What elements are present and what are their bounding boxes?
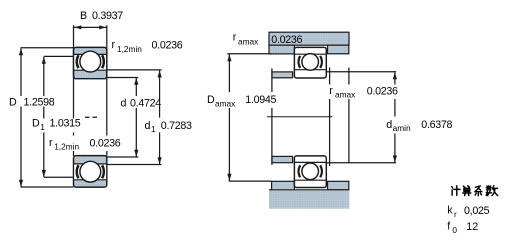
svg-text:r: r bbox=[329, 85, 333, 97]
char suan bbox=[463, 186, 471, 196]
char shu bbox=[486, 186, 498, 196]
extension line ra bbox=[348, 68, 350, 163]
extension line Da bottom bbox=[229, 180, 272, 182]
arrow B right bbox=[99, 25, 106, 29]
ball lower-left bbox=[80, 161, 101, 182]
arrow Damax bottom bbox=[227, 174, 231, 181]
svg-text:r: r bbox=[454, 209, 457, 219]
ball upper-right bbox=[302, 54, 319, 71]
shaft shoulder strip lower bbox=[272, 156, 293, 162]
groove arcs upper-right bbox=[299, 56, 322, 68]
dimension line damin bbox=[394, 73, 396, 163]
svg-text:D: D bbox=[32, 118, 40, 130]
arrow Damax top bbox=[227, 54, 231, 61]
svg-text:1,2min: 1,2min bbox=[54, 142, 79, 152]
svg-text:D: D bbox=[207, 94, 215, 106]
arrow d1 top bbox=[158, 71, 162, 78]
svg-text:D: D bbox=[9, 96, 17, 108]
svg-text:0.7283: 0.7283 bbox=[161, 120, 192, 132]
svg-text:0.0236: 0.0236 bbox=[152, 40, 183, 52]
dimension line D bbox=[20, 48, 22, 187]
svg-text:0.0236: 0.0236 bbox=[367, 86, 398, 98]
label D1 bbox=[32, 118, 81, 132]
label f0 bbox=[447, 221, 478, 236]
svg-text:0: 0 bbox=[452, 225, 457, 235]
extension line right face bbox=[106, 25, 108, 156]
svg-text:1: 1 bbox=[151, 124, 156, 134]
svg-text:amax: amax bbox=[335, 90, 356, 100]
label r1,2min bottom bbox=[49, 137, 121, 152]
bearing lower section bbox=[74, 156, 107, 188]
svg-text:1: 1 bbox=[40, 122, 45, 132]
dimension line B bbox=[74, 26, 107, 28]
extension line d1 bottom bbox=[107, 164, 162, 166]
arrow d1 bottom bbox=[158, 157, 162, 164]
ball lower-right bbox=[302, 163, 319, 180]
extension line d top bbox=[107, 77, 139, 79]
svg-text:amax: amax bbox=[238, 36, 259, 46]
char ji bbox=[452, 186, 460, 196]
extension line da top bbox=[326, 71, 396, 73]
svg-text:0,025: 0,025 bbox=[464, 205, 490, 217]
raceway groove arcs upper-left bbox=[77, 55, 104, 68]
label Damax bbox=[207, 94, 277, 108]
shaft shoulder face line left bbox=[271, 68, 273, 164]
arrow D bottom bbox=[19, 180, 23, 187]
white masks under dimension labels bbox=[8, 85, 459, 152]
svg-text:d: d bbox=[386, 119, 392, 131]
arrow D top bbox=[19, 48, 23, 55]
svg-text:f: f bbox=[447, 221, 450, 233]
extension line D1 bottom bbox=[44, 176, 74, 178]
label ramax middle bbox=[329, 85, 398, 100]
svg-text:0.6378: 0.6378 bbox=[421, 119, 452, 131]
label damin bbox=[386, 119, 452, 133]
dimension line d1 over labels bbox=[159, 71, 161, 165]
ball upper-left bbox=[80, 51, 101, 72]
housing right strip (top) bbox=[328, 45, 349, 54]
extension line D1 top bbox=[44, 55, 74, 57]
arrow d top bbox=[134, 78, 138, 85]
label D bbox=[9, 96, 55, 108]
bearing upper section outer ring bbox=[74, 47, 107, 78]
extension line Da top bbox=[227, 53, 271, 55]
svg-text:r: r bbox=[112, 39, 116, 51]
bearing upper section right bbox=[294, 47, 326, 78]
groove arcs lower-right bbox=[299, 165, 322, 177]
extension line d bottom bbox=[107, 156, 139, 158]
svg-text:k: k bbox=[447, 204, 453, 216]
svg-text:1,2min: 1,2min bbox=[117, 44, 142, 54]
svg-text:1.2598: 1.2598 bbox=[24, 96, 55, 108]
extension line da bottom bbox=[326, 162, 396, 164]
Chinese title 计算系数 drawn as strokes bbox=[452, 186, 498, 196]
svg-text:1.0945: 1.0945 bbox=[245, 94, 276, 106]
label d1 bbox=[145, 120, 193, 134]
housing bottom band bbox=[269, 190, 349, 209]
label r1,2min top bbox=[112, 39, 183, 54]
svg-text:d: d bbox=[121, 98, 127, 110]
char xi bbox=[475, 186, 482, 196]
shaft shoulder face line right bbox=[329, 67, 331, 165]
shaft shoulder strip upper bbox=[272, 72, 293, 78]
centre line dashes bbox=[85, 116, 99, 118]
axis line bbox=[267, 116, 333, 118]
svg-text:r: r bbox=[233, 32, 237, 44]
svg-text:d: d bbox=[145, 120, 151, 132]
housing left shoulder (top) bbox=[269, 45, 294, 54]
svg-text:B: B bbox=[80, 10, 87, 22]
dimension line D1 bbox=[43, 57, 45, 177]
extension line d1 top bbox=[107, 69, 162, 71]
arrow damin top bbox=[393, 72, 397, 79]
label d bbox=[121, 98, 162, 110]
svg-text:12: 12 bbox=[466, 221, 478, 233]
arrow damin bottom bbox=[393, 155, 397, 162]
bearing lower section right bbox=[294, 156, 326, 188]
housing right strip (bottom) bbox=[328, 181, 349, 190]
svg-text:0.0236: 0.0236 bbox=[90, 138, 121, 150]
label ramax top bbox=[233, 32, 303, 47]
housing left shoulder (bottom) bbox=[272, 181, 295, 190]
arrow D1 top bbox=[42, 57, 46, 64]
arrow D1 bottom bbox=[42, 170, 46, 177]
dimension line d bbox=[135, 78, 137, 157]
label kr bbox=[447, 204, 489, 219]
svg-text:0.4724: 0.4724 bbox=[130, 98, 161, 110]
svg-text:r: r bbox=[49, 137, 53, 149]
dimension line Damax bbox=[228, 55, 230, 181]
raceway groove arcs lower-left bbox=[77, 165, 104, 178]
extension line D top bbox=[21, 47, 74, 49]
extension line D bottom bbox=[21, 186, 74, 188]
svg-text:0.0236: 0.0236 bbox=[271, 34, 302, 46]
svg-text:amax: amax bbox=[215, 99, 236, 109]
arrow d bottom bbox=[134, 150, 138, 157]
housing top band bbox=[269, 32, 349, 45]
arrow B left bbox=[74, 25, 81, 29]
arrowheads bbox=[19, 25, 397, 186]
svg-text:0.3937: 0.3937 bbox=[92, 10, 123, 22]
svg-text:1.0315: 1.0315 bbox=[50, 118, 81, 130]
label B bbox=[80, 10, 123, 22]
svg-text:amin: amin bbox=[393, 123, 411, 133]
extension line left face bbox=[73, 25, 75, 156]
